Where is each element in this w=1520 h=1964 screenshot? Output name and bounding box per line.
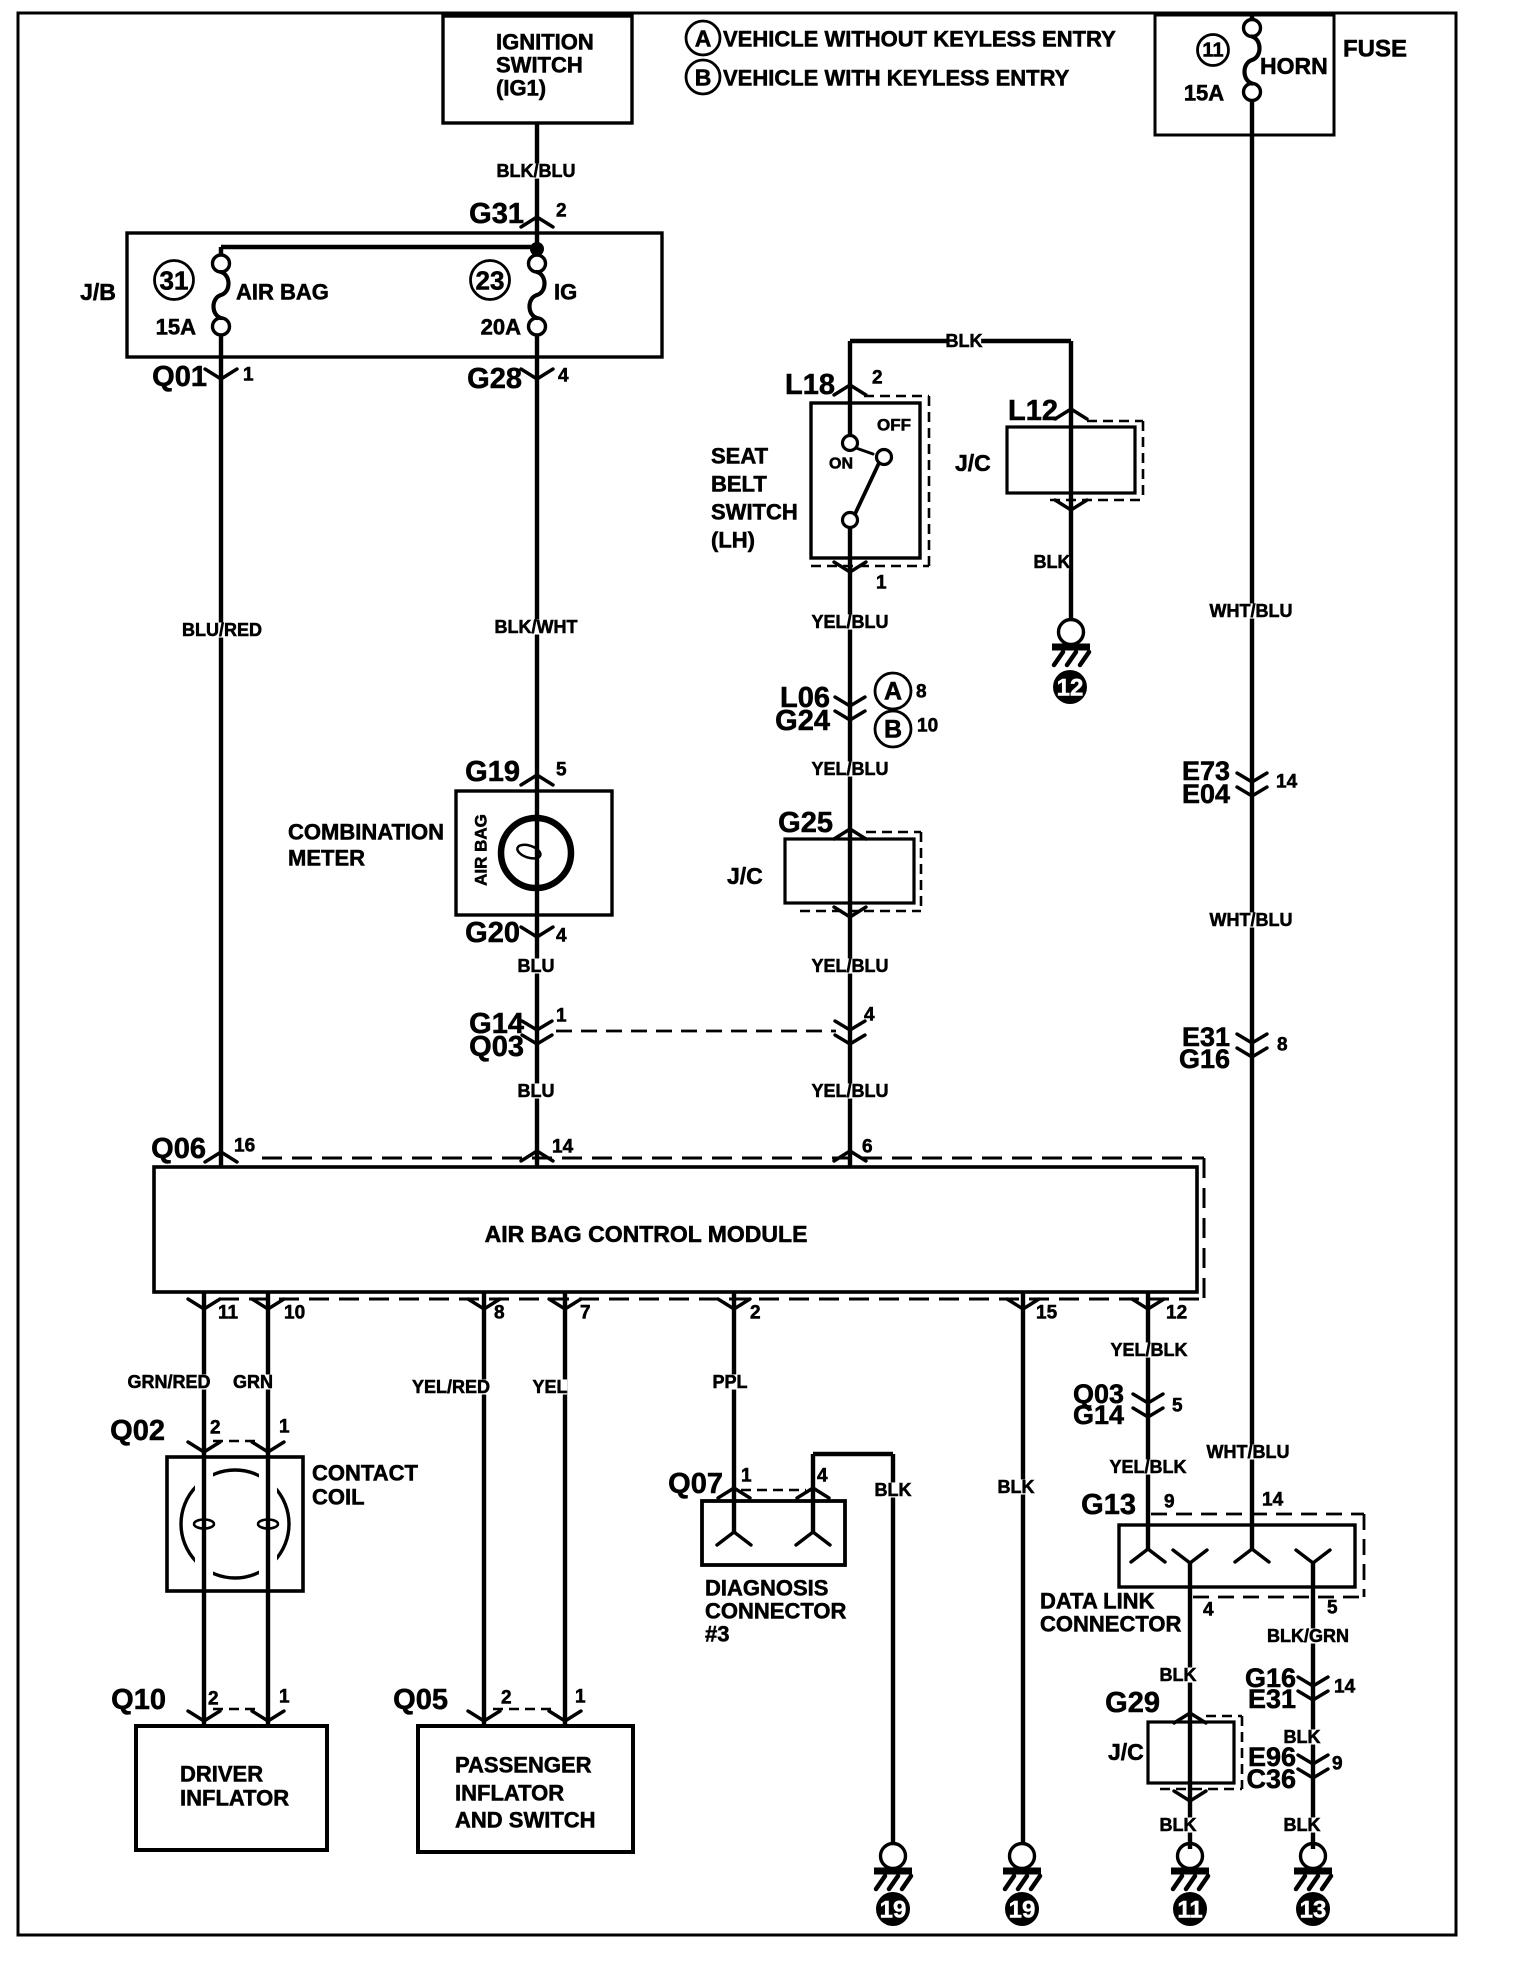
svg-text:PPL: PPL [712,1372,747,1392]
svg-text:G25: G25 [778,807,833,839]
svg-text:YEL/BLU: YEL/BLU [811,759,888,779]
svg-text:YEL/BLK: YEL/BLK [1109,1457,1186,1477]
svg-text:INFLATOR: INFLATOR [180,1786,289,1811]
svg-text:10: 10 [284,1303,305,1324]
svg-text:CONTACT: CONTACT [312,1461,418,1486]
svg-text:8: 8 [1277,1035,1288,1056]
svg-text:IGNITION: IGNITION [496,30,594,55]
svg-text:YEL/BLU: YEL/BLU [811,612,888,632]
svg-text:BLK: BLK [946,331,983,351]
svg-text:13: 13 [1300,1897,1327,1924]
svg-text:GRN/RED: GRN/RED [127,1372,210,1392]
svg-text:BLK/GRN: BLK/GRN [1267,1626,1349,1646]
svg-text:BLK/WHT: BLK/WHT [495,617,578,637]
svg-text:1: 1 [279,1687,290,1708]
svg-text:(LH): (LH) [711,528,755,553]
svg-text:2: 2 [501,1688,512,1709]
svg-text:14: 14 [1334,1677,1356,1698]
svg-text:COMBINATION: COMBINATION [288,820,444,845]
svg-text:BLK: BLK [1284,1815,1321,1835]
svg-text:9: 9 [1164,1492,1175,1513]
svg-text:PASSENGER: PASSENGER [455,1753,592,1778]
svg-text:19: 19 [1009,1897,1036,1924]
svg-text:G14: G14 [1073,1400,1124,1430]
svg-text:4: 4 [817,1466,828,1487]
svg-text:G16: G16 [1179,1044,1230,1074]
svg-text:2: 2 [208,1689,219,1710]
svg-text:VEHICLE WITHOUT KEYLESS ENTRY: VEHICLE WITHOUT KEYLESS ENTRY [723,27,1116,52]
svg-text:SEAT: SEAT [711,444,769,469]
svg-text:COIL: COIL [312,1485,365,1510]
svg-text:1: 1 [575,1687,586,1708]
svg-text:DRIVER: DRIVER [180,1762,263,1787]
svg-text:1: 1 [243,365,254,386]
svg-text:BLK: BLK [1160,1815,1197,1835]
svg-text:L12: L12 [1008,395,1058,427]
svg-text:11: 11 [1177,1897,1202,1924]
svg-text:20A: 20A [481,315,521,340]
svg-text:E04: E04 [1182,779,1230,809]
svg-text:BLK: BLK [875,1480,912,1500]
svg-text:19: 19 [880,1897,907,1924]
svg-text:J/C: J/C [955,450,991,476]
svg-text:2: 2 [210,1418,221,1439]
svg-text:INFLATOR: INFLATOR [455,1781,564,1806]
svg-text:IG: IG [554,280,577,305]
svg-text:14: 14 [1276,772,1298,793]
svg-text:11: 11 [218,1303,239,1324]
svg-text:J/B: J/B [80,279,116,305]
svg-text:Q05: Q05 [393,1684,448,1716]
svg-text:BELT: BELT [711,472,767,497]
svg-text:14: 14 [552,1137,574,1158]
svg-text:J/C: J/C [1108,1739,1144,1765]
svg-text:2: 2 [556,201,567,222]
svg-text:8: 8 [494,1303,505,1324]
svg-text:CONNECTOR: CONNECTOR [705,1599,846,1624]
svg-text:Q10: Q10 [111,1684,166,1716]
svg-text:4: 4 [864,1005,875,1026]
svg-text:G31: G31 [469,198,524,230]
svg-text:YEL/BLK: YEL/BLK [1110,1340,1187,1360]
svg-text:METER: METER [288,846,365,871]
svg-text:1: 1 [556,1006,567,1027]
svg-text:HORN: HORN [1260,53,1328,79]
svg-text:B: B [884,716,902,744]
svg-text:15A: 15A [156,315,196,340]
svg-text:Q02: Q02 [110,1415,165,1447]
svg-text:15A: 15A [1184,81,1224,106]
svg-text:G29: G29 [1105,1687,1160,1719]
svg-text:A: A [884,678,902,706]
svg-text:(IG1): (IG1) [496,76,546,101]
svg-text:AIR BAG: AIR BAG [236,280,329,305]
svg-text:Q01: Q01 [152,361,207,393]
svg-text:A: A [695,26,712,52]
svg-text:1: 1 [741,1466,752,1487]
svg-text:4: 4 [1203,1600,1214,1621]
svg-text:BLK: BLK [998,1477,1035,1497]
svg-text:DATA LINK: DATA LINK [1040,1589,1155,1614]
svg-text:Q03: Q03 [469,1031,524,1063]
svg-text:CONNECTOR: CONNECTOR [1040,1612,1181,1637]
svg-text:OFF: OFF [877,416,911,435]
svg-text:12: 12 [1166,1303,1187,1324]
svg-text:4: 4 [556,926,567,947]
svg-text:2: 2 [750,1303,761,1324]
svg-text:YEL/RED: YEL/RED [412,1377,490,1397]
svg-text:ON: ON [829,456,853,473]
svg-text:15: 15 [1036,1303,1058,1324]
svg-text:YEL/BLU: YEL/BLU [811,956,888,976]
svg-text:2: 2 [872,368,883,389]
svg-text:BLU: BLU [518,1081,555,1101]
svg-text:GRN: GRN [233,1372,273,1392]
svg-text:BLK: BLK [1160,1665,1197,1685]
svg-text:C36: C36 [1246,1764,1296,1794]
svg-text:B: B [695,65,712,91]
svg-text:7: 7 [580,1303,591,1324]
svg-text:WHT/BLU: WHT/BLU [1207,1442,1290,1462]
svg-text:10: 10 [917,716,938,737]
svg-text:8: 8 [916,682,927,703]
svg-text:23: 23 [476,266,505,296]
svg-text:#3: #3 [705,1622,729,1647]
svg-text:DIAGNOSIS: DIAGNOSIS [705,1576,828,1601]
svg-text:31: 31 [160,266,189,296]
svg-text:AIR BAG CONTROL MODULE: AIR BAG CONTROL MODULE [485,1221,808,1247]
svg-text:BLK/BLU: BLK/BLU [497,161,576,181]
svg-text:Q06: Q06 [151,1133,206,1165]
svg-text:G20: G20 [465,917,520,949]
svg-text:Q07: Q07 [668,1468,723,1500]
svg-text:6: 6 [862,1137,873,1158]
svg-text:16: 16 [234,1136,255,1157]
svg-text:G19: G19 [465,756,520,788]
svg-text:1: 1 [279,1417,290,1438]
svg-text:11: 11 [1202,40,1223,62]
svg-text:WHT/BLU: WHT/BLU [1210,910,1293,930]
svg-text:VEHICLE WITH KEYLESS ENTRY: VEHICLE WITH KEYLESS ENTRY [723,66,1070,91]
svg-text:5: 5 [1172,1396,1183,1417]
svg-text:1: 1 [876,573,887,594]
svg-text:AND SWITCH: AND SWITCH [455,1808,596,1833]
svg-text:WHT/BLU: WHT/BLU [1210,601,1293,621]
svg-text:SWITCH: SWITCH [496,53,583,78]
svg-text:E31: E31 [1248,1684,1296,1714]
svg-text:9: 9 [1332,1754,1343,1775]
svg-text:G24: G24 [775,705,830,737]
svg-text:YEL: YEL [532,1377,567,1397]
svg-text:12: 12 [1057,675,1084,702]
svg-text:4: 4 [558,366,569,387]
svg-text:L18: L18 [785,369,835,401]
svg-text:14: 14 [1262,1490,1284,1511]
svg-text:J/C: J/C [727,863,763,889]
svg-text:SWITCH: SWITCH [711,500,798,525]
svg-text:YEL/BLU: YEL/BLU [811,1081,888,1101]
svg-text:G13: G13 [1081,1489,1136,1521]
svg-text:5: 5 [556,760,567,781]
svg-text:G28: G28 [467,363,522,395]
svg-text:5: 5 [1327,1598,1338,1619]
svg-text:BLU: BLU [518,956,555,976]
svg-text:FUSE: FUSE [1343,36,1407,63]
svg-text:AIR BAG: AIR BAG [472,814,491,886]
svg-text:BLK: BLK [1034,552,1071,572]
svg-text:BLU/RED: BLU/RED [182,620,262,640]
